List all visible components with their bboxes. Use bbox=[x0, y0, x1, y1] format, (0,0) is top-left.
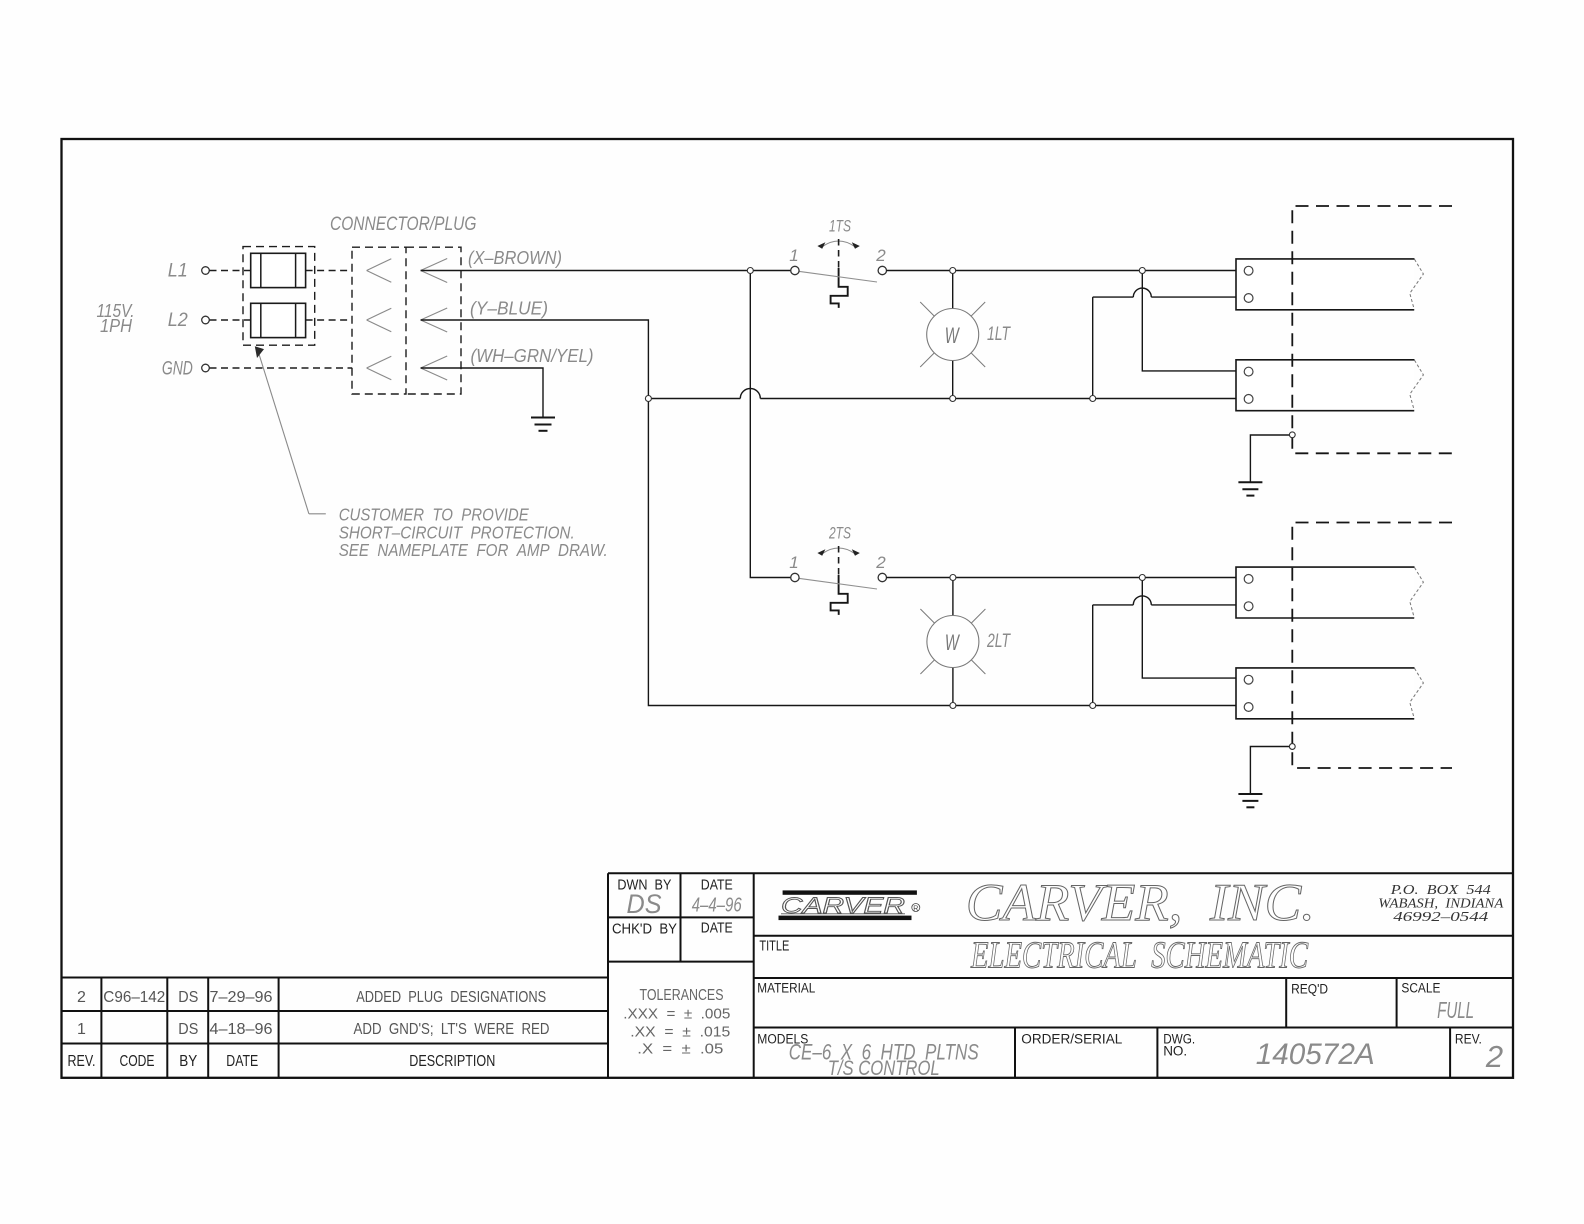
pilot lamp 1LT bbox=[920, 271, 985, 399]
1TS pin 1 bbox=[789, 246, 799, 275]
svg-text:L1: L1 bbox=[168, 261, 188, 282]
plug contact L1 bbox=[421, 259, 448, 283]
svg-text:REV.: REV. bbox=[1455, 1032, 1482, 1047]
junction: heater 3 return on neutral bank 2 bbox=[1090, 703, 1096, 709]
svg-text:DATE: DATE bbox=[701, 878, 733, 894]
1TS designator label bbox=[829, 217, 851, 236]
node GND bbox=[162, 359, 209, 380]
wire 2TS pin2 to heater bank 2 bbox=[887, 577, 1245, 579]
heater element HR2 (6 x 6 heated platen) bbox=[1236, 360, 1423, 411]
1TS pin 2 bbox=[875, 246, 886, 275]
company name CARVER, INC. bbox=[966, 874, 1315, 932]
models / order / dwg / rev row bbox=[757, 1032, 1503, 1080]
wire neutral bus bank 1 (with hop over 1TS feed drop) bbox=[648, 389, 1244, 399]
svg-text:CARVER: CARVER bbox=[781, 893, 905, 918]
heater element HR4 (6 x 6 heated platen) bbox=[1236, 668, 1423, 719]
junction: lamp 1LT top tap bbox=[950, 268, 956, 274]
note: customer to provide short-circuit protection bbox=[339, 505, 608, 561]
svg-text:1: 1 bbox=[789, 553, 798, 572]
svg-text:1PH: 1PH bbox=[100, 316, 133, 336]
wire feed drop to switch 2TS bbox=[750, 271, 791, 578]
tolerances block text bbox=[623, 987, 730, 1058]
wire L2 to fuse (dashed) bbox=[210, 319, 251, 321]
junction: lamp 2LT top tap bbox=[950, 575, 956, 581]
wire heater 3 bottom terminal to neutral (hops over tap) bbox=[1093, 596, 1245, 706]
wire 1TS pin2 to heater bank 1 bbox=[887, 270, 1245, 272]
switch 1TS (thermostat switch) bbox=[799, 239, 878, 308]
svg-text:L2: L2 bbox=[168, 310, 188, 331]
svg-text:(X–BROWN): (X–BROWN) bbox=[468, 247, 562, 268]
junction: 2TS feed tap on hot bus bbox=[747, 268, 753, 274]
heater bank 2 dashed enclosure bbox=[1292, 523, 1452, 769]
2TS designator label bbox=[828, 524, 851, 543]
svg-text:TOLERANCES: TOLERANCES bbox=[640, 987, 724, 1004]
svg-text:(Y–BLUE): (Y–BLUE) bbox=[470, 298, 548, 319]
svg-text:2TS: 2TS bbox=[828, 524, 851, 543]
wire X-BROWN hot bus to switch 1TS bbox=[421, 270, 791, 272]
connector contact L1 bbox=[367, 259, 392, 283]
node L2 bbox=[168, 310, 210, 331]
fuse block enclosure (customer short-circuit protection) bbox=[243, 247, 315, 346]
svg-text:4–18–96: 4–18–96 bbox=[210, 1021, 273, 1038]
svg-text:FULL: FULL bbox=[1437, 997, 1474, 1023]
net label (X-BROWN) bbox=[468, 247, 562, 268]
switch 2TS (thermostat switch) bbox=[799, 546, 878, 615]
svg-text:REV.: REV. bbox=[68, 1053, 96, 1070]
svg-text:2: 2 bbox=[875, 246, 886, 265]
svg-text:GND: GND bbox=[162, 359, 193, 380]
connector/plug label bbox=[330, 214, 477, 235]
junction: lamp 1LT bottom tap bbox=[950, 396, 956, 402]
svg-text:NO.: NO. bbox=[1163, 1044, 1187, 1059]
wire L1 to fuse (dashed) bbox=[210, 270, 251, 272]
pilot lamp 2LT bbox=[920, 578, 985, 706]
svg-text:T/S CONTROL: T/S CONTROL bbox=[828, 1057, 940, 1080]
junction: enclosure 1 ground tap bbox=[1289, 432, 1295, 438]
svg-text:SCALE: SCALE bbox=[1401, 981, 1440, 996]
svg-text:2: 2 bbox=[1485, 1039, 1503, 1074]
plug housing (dashed box) bbox=[406, 247, 461, 394]
svg-text:CARVER, INC.: CARVER, INC. bbox=[966, 874, 1315, 932]
drawn-by block text bbox=[612, 878, 742, 938]
svg-text:2LT: 2LT bbox=[986, 631, 1011, 652]
wire Y-BLUE: right then down to neutral banks bbox=[421, 320, 1245, 706]
svg-text:140572A: 140572A bbox=[1256, 1038, 1375, 1071]
svg-text:ADD GND'S; LT'S WERE RED: ADD GND'S; LT'S WERE RED bbox=[354, 1021, 550, 1038]
wire heater 1 bottom terminal to neutral (hops over tap) bbox=[1093, 288, 1245, 398]
svg-text:4–4–96: 4–4–96 bbox=[692, 895, 743, 917]
svg-text:ORDER/SERIAL: ORDER/SERIAL bbox=[1021, 1032, 1122, 1047]
svg-text:SEE NAMEPLATE FOR AMP DRAW: SEE NAMEPLATE FOR AMP DRAW. bbox=[339, 540, 608, 560]
junction: heater 4 feed tap bbox=[1139, 575, 1145, 581]
svg-text:DS: DS bbox=[178, 989, 198, 1006]
heater element HR3 (6 x 6 heated platen) bbox=[1236, 567, 1423, 618]
fuse F1 (L1) bbox=[251, 253, 306, 287]
Carver logo bbox=[779, 890, 920, 920]
junction: enclosure 2 ground tap bbox=[1289, 744, 1295, 750]
svg-text:ADDED PLUG DESIGNATIONS: ADDED PLUG DESIGNATIONS bbox=[356, 989, 546, 1006]
svg-text:C96–142: C96–142 bbox=[103, 989, 165, 1006]
wire tap to heater 4 top terminal bbox=[1142, 578, 1245, 679]
svg-text:1TS: 1TS bbox=[829, 217, 851, 236]
plug contact GND bbox=[421, 356, 448, 380]
junction: heater 1 return on neutral bank 1 bbox=[1090, 396, 1096, 402]
svg-text:1: 1 bbox=[789, 246, 798, 265]
2TS pin 2 bbox=[875, 553, 886, 582]
svg-text:.XXX = ± .005: .XXX = ± .005 bbox=[623, 1006, 730, 1023]
net label (WH-GRN/YEL) bbox=[471, 345, 594, 366]
heater element HR1 (6 x 6 heated platen) bbox=[1236, 259, 1423, 310]
svg-text:(WH–GRN/YEL): (WH–GRN/YEL) bbox=[471, 345, 594, 366]
revision table text bbox=[68, 989, 550, 1070]
junction: lamp 2LT bottom tap bbox=[950, 703, 956, 709]
svg-text:DS: DS bbox=[627, 889, 662, 919]
node L1 bbox=[168, 261, 210, 282]
wire fuse F1 to connector (dashed) bbox=[306, 270, 352, 272]
svg-text:CODE: CODE bbox=[120, 1053, 155, 1070]
svg-text:W: W bbox=[945, 323, 961, 348]
svg-text:CHK'D BY: CHK'D BY bbox=[612, 922, 677, 938]
title block ruling bbox=[608, 873, 1513, 1077]
revision table ruling bbox=[62, 978, 609, 1078]
svg-text:2: 2 bbox=[77, 989, 86, 1006]
ground symbol (supply earth) bbox=[531, 418, 555, 431]
2TS pin 1 bbox=[789, 553, 799, 582]
label 115V 1PH supply value bbox=[97, 301, 135, 336]
svg-text:TITLE: TITLE bbox=[759, 939, 789, 955]
svg-text:DATE: DATE bbox=[226, 1053, 258, 1070]
wire fuse F2 to connector (dashed) bbox=[306, 319, 352, 321]
1LT designator label bbox=[987, 324, 1011, 345]
wire tap to heater 2 top terminal (hops none) bbox=[1142, 271, 1245, 371]
svg-text:46992–0544: 46992–0544 bbox=[1393, 910, 1488, 925]
svg-text:R: R bbox=[913, 905, 918, 912]
svg-text:.XX = ± .015: .XX = ± .015 bbox=[630, 1023, 730, 1040]
title row bbox=[759, 935, 1308, 977]
svg-text:.X = ± .05: .X = ± .05 bbox=[637, 1041, 723, 1058]
svg-text:DESCRIPTION: DESCRIPTION bbox=[409, 1053, 495, 1070]
plug contact L2 bbox=[421, 308, 448, 332]
leader arrow to fuse block bbox=[255, 346, 326, 514]
svg-text:DATE: DATE bbox=[701, 921, 733, 937]
net label (Y-BLUE) bbox=[470, 298, 548, 319]
fuse F2 (L2) bbox=[251, 303, 306, 337]
connector contact L2 bbox=[367, 308, 392, 332]
svg-text:DS: DS bbox=[178, 1021, 198, 1038]
svg-text:1: 1 bbox=[77, 1021, 86, 1038]
material / reqd / scale row bbox=[757, 981, 1474, 1024]
svg-text:1LT: 1LT bbox=[987, 324, 1011, 345]
svg-text:2: 2 bbox=[875, 553, 886, 572]
junction: heater 2 feed tap bbox=[1139, 268, 1145, 274]
svg-text:CONNECTOR/PLUG: CONNECTOR/PLUG bbox=[330, 214, 477, 235]
2LT designator label bbox=[986, 631, 1011, 652]
svg-text:BY: BY bbox=[179, 1053, 197, 1070]
junction: Y-BLUE to neutral bank 1 bbox=[645, 396, 651, 402]
svg-text:MATERIAL: MATERIAL bbox=[757, 981, 815, 996]
svg-text:REQ'D: REQ'D bbox=[1291, 982, 1328, 997]
svg-text:7–29–96: 7–29–96 bbox=[210, 989, 273, 1006]
wire WH-GRN/YEL to chassis ground bbox=[421, 368, 543, 418]
connector housing (dashed box) bbox=[352, 247, 406, 394]
svg-text:CUSTOMER TO PROVIDE: CUSTOMER TO PROVIDE bbox=[339, 505, 529, 525]
wire GND to connector (dashed) bbox=[210, 367, 353, 369]
ground symbol heater bank 1 bbox=[1238, 435, 1290, 496]
connector contact GND bbox=[367, 356, 392, 380]
ground symbol heater bank 2 bbox=[1238, 747, 1290, 808]
heater bank 1 dashed enclosure bbox=[1292, 206, 1452, 453]
svg-text:W: W bbox=[945, 630, 961, 655]
company address bbox=[1378, 883, 1503, 925]
svg-text:ELECTRICAL SCHEMATIC: ELECTRICAL SCHEMATIC bbox=[970, 935, 1308, 977]
